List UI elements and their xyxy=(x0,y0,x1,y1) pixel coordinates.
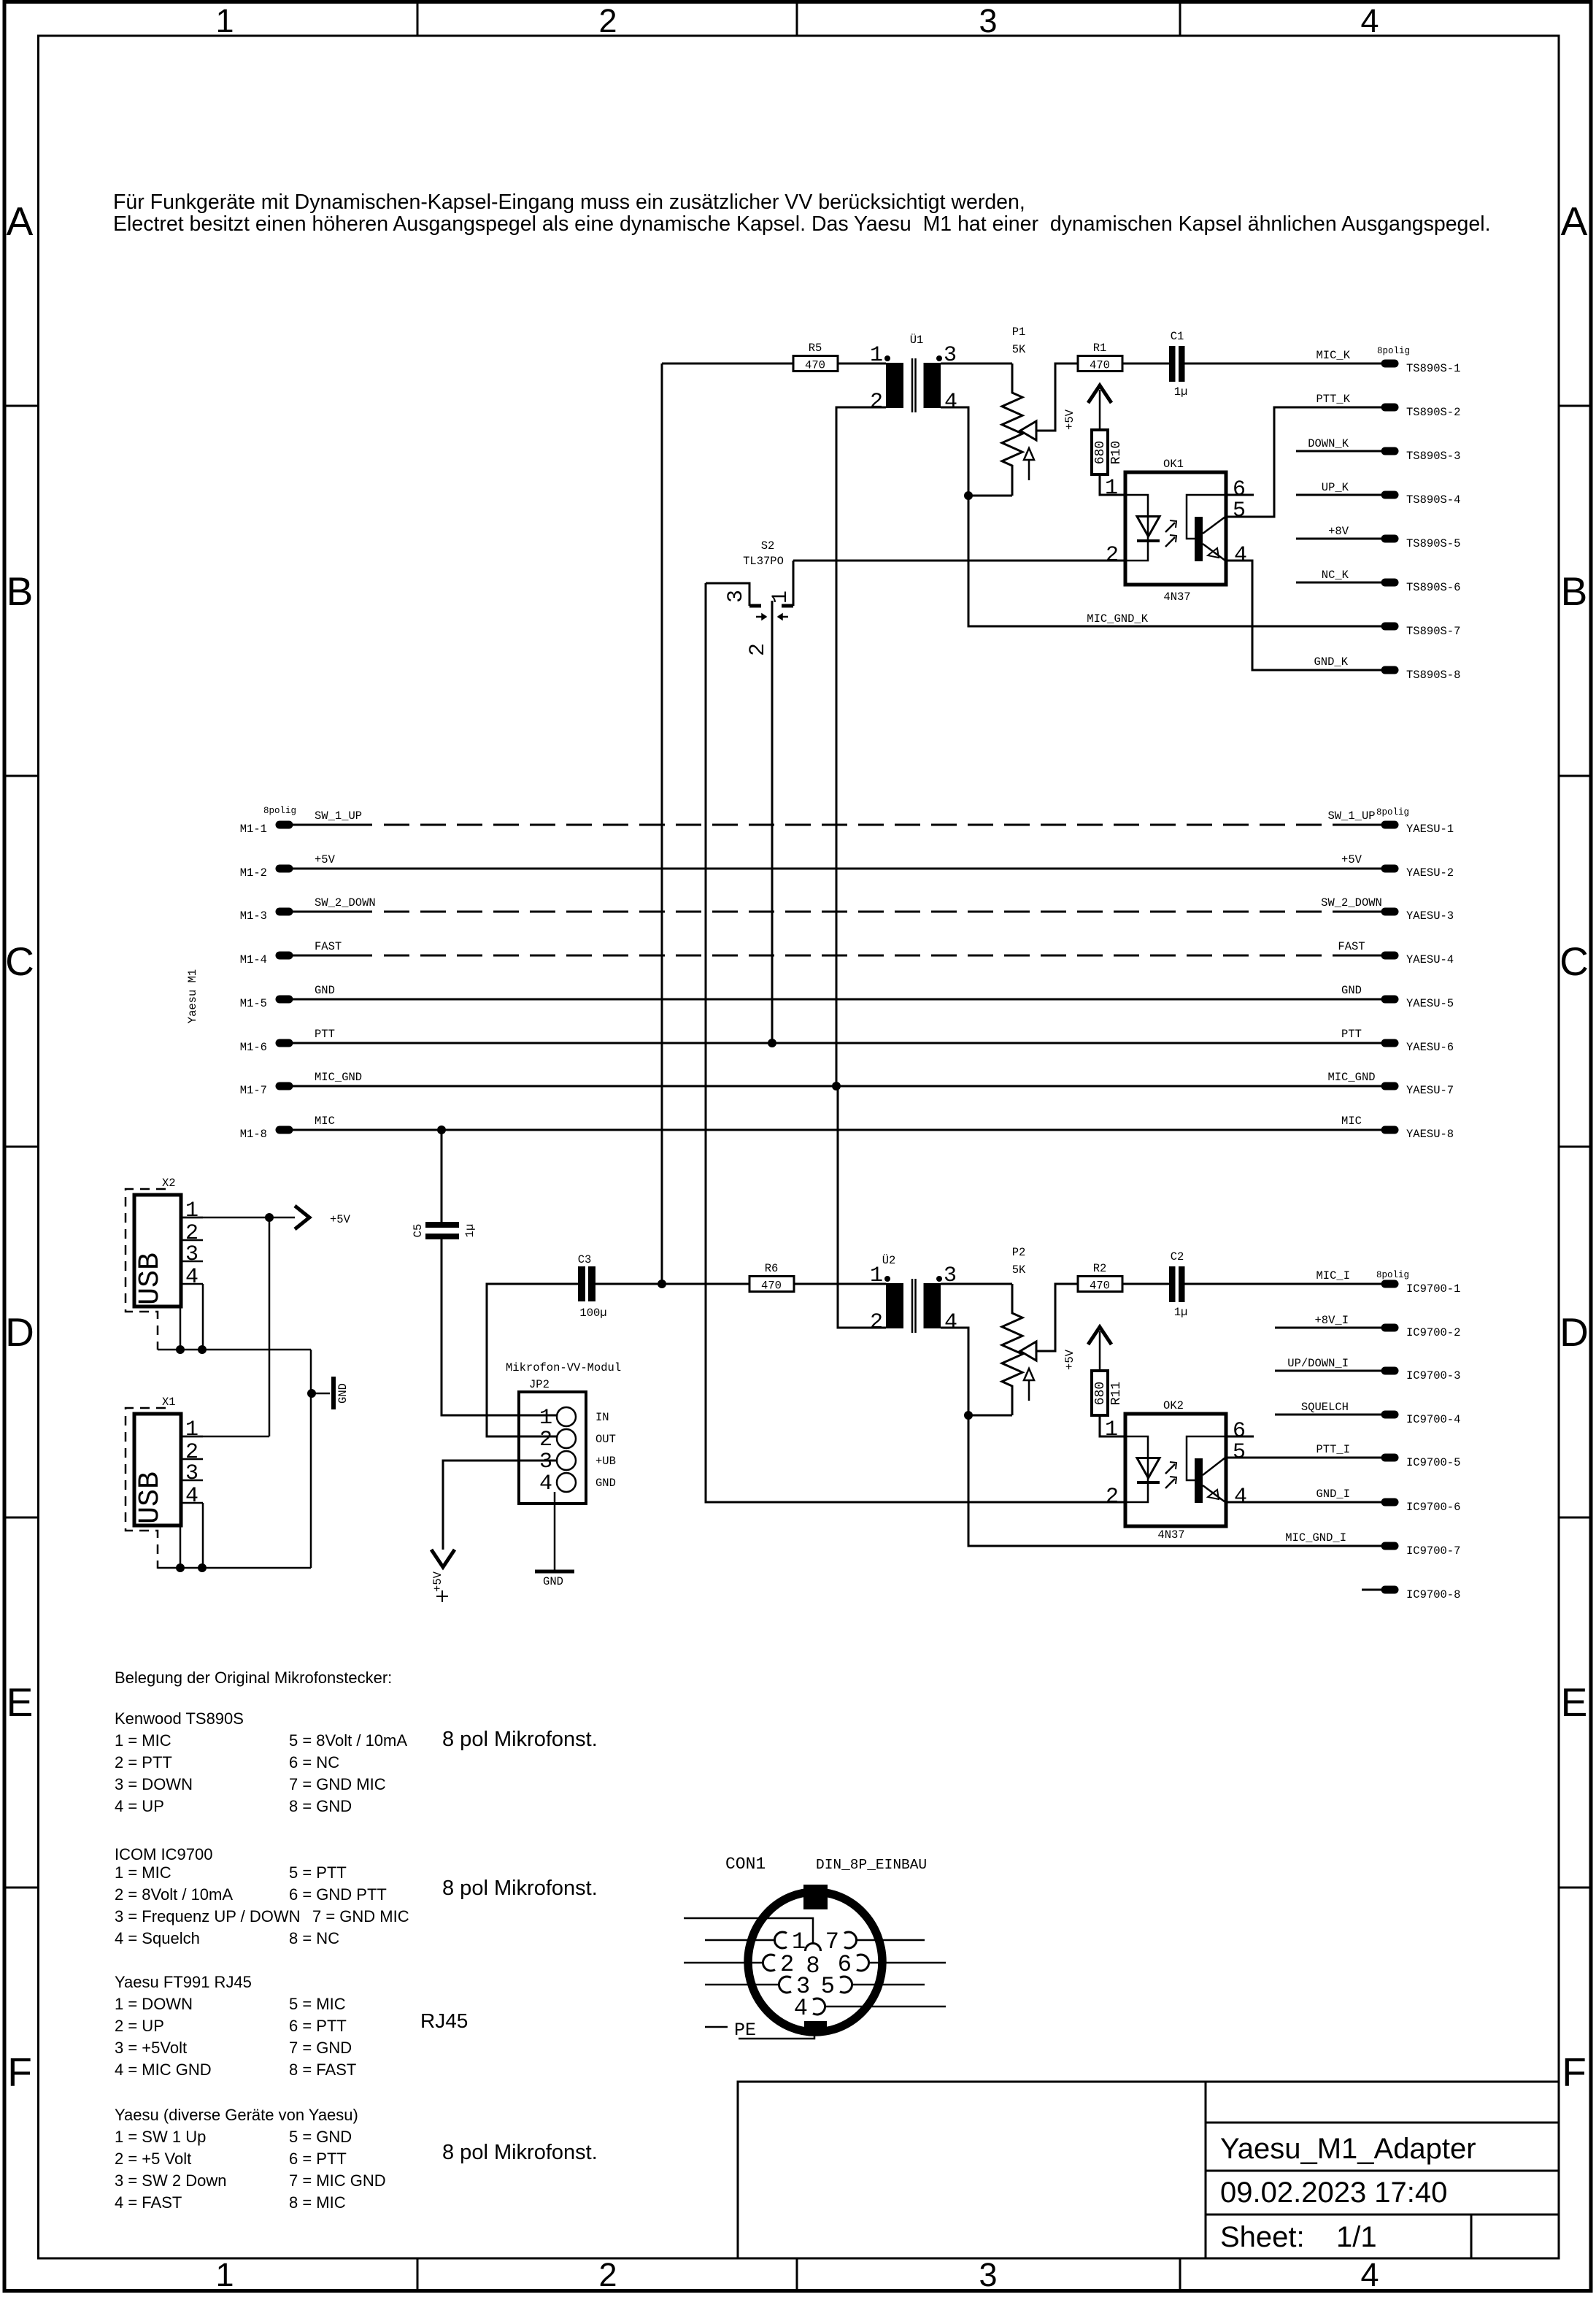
svg-text:4: 4 xyxy=(539,1471,552,1496)
svg-text:+UB: +UB xyxy=(595,1455,616,1468)
svg-text:D: D xyxy=(1560,1309,1589,1355)
optocoupler OK1 box xyxy=(1125,472,1226,585)
svg-text:2 = 8Volt / 10mA: 2 = 8Volt / 10mA xyxy=(115,1885,233,1904)
svg-text:MIC_GND: MIC_GND xyxy=(315,1071,362,1084)
junction dot U1 pin2 to MIC_GND bus xyxy=(832,1082,841,1090)
svg-text:C2: C2 xyxy=(1171,1250,1184,1263)
X1 pin 4 stub xyxy=(181,1502,203,1504)
svg-text:470: 470 xyxy=(761,1280,782,1293)
wire bus MIC xyxy=(292,1129,1381,1131)
svg-text:CON1: CON1 xyxy=(725,1855,766,1874)
svg-text:GND: GND xyxy=(315,984,335,997)
wire stub +8V_I xyxy=(1275,1327,1381,1329)
svg-text:PTT_I: PTT_I xyxy=(1316,1443,1350,1456)
svg-text:4: 4 xyxy=(1360,2,1379,39)
svg-text:GND: GND xyxy=(1341,984,1362,997)
border left row tick C-D xyxy=(5,1146,38,1148)
resistor R6 xyxy=(749,1277,794,1292)
svg-text:SW_1_UP: SW_1_UP xyxy=(1327,809,1375,823)
connector pin YAESU-3 xyxy=(1385,908,1395,916)
CON1 PE wire stub xyxy=(705,2026,728,2028)
ground symbol GND (JP2) xyxy=(535,1570,574,1574)
svg-text:TS890S-8: TS890S-8 xyxy=(1406,669,1460,682)
connector pin IC9700-3 xyxy=(1385,1367,1395,1375)
CON1 pin 1 wire xyxy=(705,1939,774,1942)
svg-text:7 = GND MIC: 7 = GND MIC xyxy=(312,1907,409,1925)
switch S2 arrows xyxy=(756,616,766,618)
svg-text:USB: USB xyxy=(134,1253,167,1305)
wire C3 right to node xyxy=(595,1283,662,1285)
wire R10 to OK1 pin1 xyxy=(1100,474,1125,495)
svg-text:TL37PO: TL37PO xyxy=(743,555,784,568)
svg-text:3: 3 xyxy=(539,1450,552,1474)
connector pin TS890S-6 xyxy=(1385,579,1395,587)
svg-text:F: F xyxy=(7,2050,32,2095)
wire X1 pin1 to X2 pin1 xyxy=(181,1436,269,1438)
switch S2 pin1 lead xyxy=(793,561,795,606)
svg-text:5K: 5K xyxy=(1012,343,1026,356)
svg-text:1µ: 1µ xyxy=(1174,385,1188,399)
svg-text:TS890S-1: TS890S-1 xyxy=(1406,362,1460,375)
wire R11 to OK2 pin1 xyxy=(1100,1415,1125,1436)
svg-text:8polig: 8polig xyxy=(1377,346,1410,356)
svg-text:4: 4 xyxy=(185,1484,198,1509)
svg-text:470: 470 xyxy=(1090,359,1110,372)
OK2 LED light arrows xyxy=(1165,1464,1175,1474)
connector pin TS890S-4 xyxy=(1385,491,1395,499)
wire stub SQUELCH xyxy=(1275,1414,1381,1416)
connector pin M1-1 xyxy=(280,821,289,829)
svg-text:1: 1 xyxy=(870,1263,883,1288)
wire rail down to X1 rail xyxy=(310,1350,312,1568)
svg-text:4: 4 xyxy=(185,1265,198,1290)
connector pin YAESU-5 xyxy=(1385,996,1395,1004)
CON1 pin 7 socket xyxy=(844,1932,857,1948)
svg-text:2: 2 xyxy=(598,2,617,39)
resistor R5 xyxy=(793,356,838,372)
svg-text:5K: 5K xyxy=(1012,1263,1026,1277)
wire X2 pin4 down xyxy=(202,1284,204,1350)
X2 pin 2 stub xyxy=(181,1239,203,1242)
svg-text:YAESU-4: YAESU-4 xyxy=(1406,953,1454,966)
connector pin IC9700-8 xyxy=(1385,1586,1395,1594)
wire node to R6 xyxy=(662,1283,749,1285)
CON1 pin 3 socket xyxy=(779,1977,791,1993)
wire C1 to TS890S-1 MIC_K xyxy=(1185,363,1382,365)
svg-text:TS890S-6: TS890S-6 xyxy=(1406,581,1460,594)
wire U1 pin2 left xyxy=(836,407,886,1086)
wire MIC bus to C5 xyxy=(441,1130,443,1222)
wire P2 wiper to R2 xyxy=(1036,1284,1078,1351)
wire stub DOWN_K xyxy=(1296,450,1381,453)
svg-text:C5: C5 xyxy=(412,1224,425,1238)
svg-text:4: 4 xyxy=(1360,2256,1379,2293)
svg-text:1: 1 xyxy=(185,1417,198,1442)
svg-text:6 = PTT: 6 = PTT xyxy=(289,2150,347,2168)
svg-text:SW_2_DOWN: SW_2_DOWN xyxy=(1321,896,1382,909)
svg-text:M1-2: M1-2 xyxy=(240,866,267,880)
border left row tick E-F xyxy=(5,1887,38,1889)
X2 pin 1 stub xyxy=(181,1217,203,1219)
svg-text:R6: R6 xyxy=(765,1262,779,1275)
svg-text:8polig: 8polig xyxy=(1376,1270,1409,1280)
X1 pin 3 stub xyxy=(181,1480,203,1482)
wire GND tap xyxy=(312,1393,330,1395)
potentiometer P2 xyxy=(1002,1284,1022,1415)
svg-text:8 = MIC: 8 = MIC xyxy=(289,2193,346,2212)
transformer U2 pin 1 dot xyxy=(884,1276,890,1282)
svg-text:PTT: PTT xyxy=(315,1028,335,1041)
svg-text:7 = MIC GND: 7 = MIC GND xyxy=(289,2171,386,2190)
power +5V arrow (R10 top) xyxy=(1088,385,1111,403)
border left row tick A-B xyxy=(5,405,38,407)
svg-text:YAESU-8: YAESU-8 xyxy=(1406,1128,1454,1141)
sheet center mark xyxy=(436,1596,448,1597)
svg-text:SW_2_DOWN: SW_2_DOWN xyxy=(315,896,376,909)
svg-text:Belegung der Original Mikrofon: Belegung der Original Mikrofonstecker: xyxy=(115,1669,392,1687)
svg-text:YAESU-1: YAESU-1 xyxy=(1406,823,1454,836)
switch S2 actuator and pin2 lead xyxy=(771,601,774,1043)
svg-text:6 = NC: 6 = NC xyxy=(289,1753,339,1771)
svg-text:4: 4 xyxy=(794,1995,808,2022)
svg-text:1µ: 1µ xyxy=(1174,1306,1188,1319)
title block outline xyxy=(738,2082,1559,2258)
svg-text:470: 470 xyxy=(805,359,825,372)
module JP2 box xyxy=(519,1392,586,1504)
title block line 1 xyxy=(1206,2122,1559,2124)
svg-text:TS890S-5: TS890S-5 xyxy=(1406,537,1460,550)
svg-text:YAESU-5: YAESU-5 xyxy=(1406,997,1454,1010)
wire R2 to C2 xyxy=(1122,1283,1169,1285)
svg-text:UP_K: UP_K xyxy=(1322,481,1349,494)
connector pin TS890S-3 xyxy=(1385,447,1395,455)
svg-text:M1-3: M1-3 xyxy=(240,909,267,923)
svg-text:1: 1 xyxy=(185,1198,198,1223)
P2 adjust arrow xyxy=(1024,1369,1034,1380)
svg-text:FAST: FAST xyxy=(315,940,342,953)
OK1 internal LED xyxy=(1125,495,1148,541)
svg-text:Yaesu FT991 RJ45: Yaesu FT991 RJ45 xyxy=(115,1973,252,1991)
wire P1 wiper to R1 xyxy=(1036,363,1078,431)
svg-text:GND_I: GND_I xyxy=(1316,1488,1350,1501)
svg-text:5: 5 xyxy=(821,1973,835,2000)
wire U1 pin4 down xyxy=(941,407,968,496)
transformer U1 xyxy=(886,363,903,408)
connector pin TS890S-1 xyxy=(1385,360,1395,368)
svg-text:Yaesu M1: Yaesu M1 xyxy=(186,969,199,1023)
svg-text:IC9700-6: IC9700-6 xyxy=(1406,1501,1460,1514)
svg-text:D: D xyxy=(5,1309,34,1355)
border right row tick B-C xyxy=(1559,775,1591,777)
wire node vertical x=907 (R5 line down to C3 node) xyxy=(661,363,663,1284)
svg-text:USB: USB xyxy=(134,1471,167,1524)
X1 pin 1 stub xyxy=(181,1436,203,1438)
wire U2 pin3 to P2 xyxy=(941,1283,1012,1285)
svg-text:B: B xyxy=(1561,569,1588,614)
svg-text:Für Funkgeräte mit Dynamischen: Für Funkgeräte mit Dynamischen-Kapsel-Ei… xyxy=(113,191,1025,214)
svg-text:5 = 8Volt / 10mA: 5 = 8Volt / 10mA xyxy=(289,1731,407,1750)
svg-text:+5V: +5V xyxy=(1341,853,1362,866)
CON1 pin 7 wire xyxy=(857,1939,925,1942)
svg-text:1/1: 1/1 xyxy=(1336,2221,1377,2253)
svg-text:4: 4 xyxy=(1234,543,1247,568)
svg-text:IC9700-4: IC9700-4 xyxy=(1406,1413,1460,1426)
wire X1 shell down xyxy=(180,1525,182,1568)
svg-text:4N37: 4N37 xyxy=(1163,590,1190,604)
CON1 pin 6 wire xyxy=(869,1962,946,1964)
svg-text:MIC_GND: MIC_GND xyxy=(1327,1071,1375,1084)
wire U2 pin2 up to MIC_GND bus xyxy=(838,1086,886,1328)
connector CON1 keyway top xyxy=(803,1885,828,1909)
wire node to IC9700-7 MIC_GND_I xyxy=(968,1415,1381,1546)
svg-text:7 = GND: 7 = GND xyxy=(289,2039,352,2057)
svg-text:2: 2 xyxy=(746,643,771,656)
connector pin TS890S-8 xyxy=(1385,666,1395,674)
border right row tick E-F xyxy=(1559,1887,1591,1889)
svg-text:4: 4 xyxy=(944,1310,957,1335)
border top column tick 1-2 xyxy=(417,1,419,36)
wire OK2 pin4 to IC9700-6 GND_I xyxy=(1226,1501,1381,1504)
wire P2 bottom xyxy=(968,1415,1012,1417)
connector pin IC9700-2 xyxy=(1385,1324,1395,1332)
resistor R10 xyxy=(1092,430,1108,474)
svg-text:Sheet:: Sheet: xyxy=(1220,2221,1305,2253)
svg-text:GND_K: GND_K xyxy=(1314,655,1348,669)
svg-text:OK2: OK2 xyxy=(1163,1399,1184,1412)
svg-text:5 = MIC: 5 = MIC xyxy=(289,1995,346,2013)
border right row tick D-E xyxy=(1559,1517,1591,1519)
connector pin M1-7 xyxy=(280,1082,289,1090)
wire stub UP/DOWN_I xyxy=(1275,1370,1381,1372)
svg-text:M1-7: M1-7 xyxy=(240,1084,267,1097)
svg-text:8 pol Mikrofonst.: 8 pol Mikrofonst. xyxy=(442,1728,598,1751)
svg-text:M1-1: M1-1 xyxy=(240,823,267,836)
svg-text:MIC_GND_K: MIC_GND_K xyxy=(1087,612,1148,626)
CON1 pin 5 socket xyxy=(840,1977,852,1993)
wire bus FAST xyxy=(292,955,372,957)
svg-text:IC9700-1: IC9700-1 xyxy=(1406,1282,1460,1296)
svg-text:TS890S-4: TS890S-4 xyxy=(1406,493,1460,507)
svg-text:C1: C1 xyxy=(1171,330,1184,343)
connector pin YAESU-8 xyxy=(1385,1126,1395,1134)
svg-text:TS890S-3: TS890S-3 xyxy=(1406,450,1460,463)
svg-text:YAESU-7: YAESU-7 xyxy=(1406,1084,1454,1097)
svg-text:1 = MIC: 1 = MIC xyxy=(115,1731,171,1750)
connector CON1 ring xyxy=(748,1892,882,2032)
border bottom column tick 3-4 xyxy=(1179,2258,1181,2291)
svg-text:4: 4 xyxy=(944,390,957,415)
CON1 pin 5 wire xyxy=(852,1984,925,1986)
svg-text:R10: R10 xyxy=(1109,441,1124,464)
svg-text:1: 1 xyxy=(1105,476,1118,501)
resistor R2 xyxy=(1078,1277,1122,1292)
svg-text:E: E xyxy=(1561,1680,1588,1725)
border right row tick A-B xyxy=(1559,405,1591,407)
junction dot X1 rail pin4 xyxy=(198,1563,207,1572)
svg-text:1: 1 xyxy=(768,590,793,604)
ground symbol GND (USB) xyxy=(331,1377,336,1409)
svg-text:5 = GND: 5 = GND xyxy=(289,2128,352,2146)
svg-text:M1-4: M1-4 xyxy=(240,953,267,966)
svg-text:3: 3 xyxy=(979,2,997,39)
JP2 pin 1 circle xyxy=(557,1407,576,1426)
border top column tick 2-3 xyxy=(796,1,798,36)
svg-text:1: 1 xyxy=(1105,1417,1118,1442)
wire S2 pin3 down to OK2 pin2 xyxy=(706,583,1125,1502)
power +5V arrow (R11 top) xyxy=(1088,1327,1111,1344)
svg-text:3 = +5Volt: 3 = +5Volt xyxy=(115,2039,187,2057)
junction dot MIC bus to C5 xyxy=(437,1126,446,1134)
svg-text:1: 1 xyxy=(539,1406,552,1431)
wire OK1 pin4 to TS890S-8 GND_K xyxy=(1226,561,1381,670)
connector pin YAESU-4 xyxy=(1385,952,1395,960)
svg-text:3 = Frequenz UP / DOWN: 3 = Frequenz UP / DOWN xyxy=(115,1907,301,1925)
svg-text:X2: X2 xyxy=(162,1177,176,1190)
potentiometer P1 xyxy=(1002,363,1022,496)
svg-text:YAESU-6: YAESU-6 xyxy=(1406,1041,1454,1054)
wire OK1 pin5 to TS890S-2 PTT_K xyxy=(1226,407,1381,517)
title block small divider xyxy=(1470,2215,1473,2258)
OK1 phototransistor xyxy=(1195,517,1203,561)
P1 wiper arrow xyxy=(1020,421,1036,440)
svg-text:RJ45: RJ45 xyxy=(420,2009,468,2032)
connector X1 dashed outline xyxy=(126,1408,166,1569)
wire C3 left to JP2 pin2 OUT xyxy=(487,1284,578,1436)
CON1 pin 4 socket xyxy=(813,1998,825,2015)
wire JP2 pin4 to GND xyxy=(554,1492,556,1571)
optocoupler OK2 box xyxy=(1125,1414,1226,1526)
svg-text:SW_1_UP: SW_1_UP xyxy=(315,809,362,823)
connector pin IC9700-1 xyxy=(1385,1280,1395,1288)
svg-text:1 = MIC: 1 = MIC xyxy=(115,1863,171,1882)
wire P1 bottom to node xyxy=(968,495,1012,497)
svg-text:R1: R1 xyxy=(1093,342,1107,355)
svg-text:2: 2 xyxy=(870,390,883,415)
wire X2 pin1 junction down to X1 pin1 xyxy=(269,1217,271,1436)
svg-text:Ü1: Ü1 xyxy=(910,334,924,347)
X2 pin 3 stub xyxy=(181,1261,203,1263)
svg-text:E: E xyxy=(7,1680,34,1725)
svg-text:4 = Squelch: 4 = Squelch xyxy=(115,1929,200,1947)
svg-text:8 = FAST: 8 = FAST xyxy=(289,2061,356,2079)
OK2 phototransistor xyxy=(1195,1458,1203,1503)
svg-text:Electret besitzt einen höheren: Electret besitzt einen höheren Ausgangsp… xyxy=(113,212,1491,236)
wire bus GND xyxy=(292,999,1381,1001)
wire U2 pin4 down xyxy=(941,1328,968,1415)
connector pin M1-6 xyxy=(280,1039,289,1047)
power +5V right arrow xyxy=(295,1206,309,1229)
svg-text:R2: R2 xyxy=(1093,1262,1107,1275)
svg-text:NC_K: NC_K xyxy=(1322,569,1349,582)
wire R6 to U2 pin1 xyxy=(794,1283,886,1285)
wire U1 pin3 to P1 xyxy=(941,363,1012,365)
svg-text:IC9700-2: IC9700-2 xyxy=(1406,1326,1460,1339)
wire X2 pin1 to +5V arrow xyxy=(181,1217,295,1219)
border bottom column tick 1-2 xyxy=(417,2258,419,2291)
svg-text:+5V: +5V xyxy=(315,853,336,866)
JP2 pin 3 circle xyxy=(557,1451,576,1470)
junction dot X1 rail shell xyxy=(176,1563,185,1572)
svg-text:1 = SW 1 Up: 1 = SW 1 Up xyxy=(115,2128,206,2146)
svg-text:3 = SW 2 Down: 3 = SW 2 Down xyxy=(115,2171,226,2190)
svg-text:1 = DOWN: 1 = DOWN xyxy=(115,1995,193,2013)
P2 wiper arrow xyxy=(1020,1342,1036,1361)
wire R5 left to node vertical xyxy=(662,363,793,365)
svg-text:C: C xyxy=(1560,939,1589,984)
svg-text:4 = FAST: 4 = FAST xyxy=(115,2193,182,2212)
connector pin YAESU-1 xyxy=(1385,821,1395,829)
svg-text:6: 6 xyxy=(838,1951,852,1978)
svg-text:6 = GND PTT: 6 = GND PTT xyxy=(289,1885,387,1904)
svg-text:5 = PTT: 5 = PTT xyxy=(289,1863,347,1882)
OK2 internal LED xyxy=(1125,1436,1148,1482)
connector pin YAESU-6 xyxy=(1385,1039,1395,1047)
junction dot P1 bottom node xyxy=(964,491,973,500)
wire R1 to C1 xyxy=(1122,363,1169,365)
P1 adjust arrow xyxy=(1024,448,1034,460)
svg-text:PTT: PTT xyxy=(1341,1028,1362,1041)
svg-text:JP2: JP2 xyxy=(529,1378,550,1391)
svg-text:2 = +5 Volt: 2 = +5 Volt xyxy=(115,2150,191,2168)
title block divider vertical xyxy=(1205,2082,1207,2258)
border bottom column tick 2-3 xyxy=(796,2258,798,2291)
border left row tick D-E xyxy=(5,1517,38,1519)
resistor R11 xyxy=(1092,1371,1108,1415)
svg-text:1: 1 xyxy=(215,2,234,39)
svg-text:S2: S2 xyxy=(761,539,775,553)
svg-text:1: 1 xyxy=(215,2256,234,2293)
svg-text:P1: P1 xyxy=(1012,326,1026,339)
svg-text:2: 2 xyxy=(1106,543,1119,568)
svg-text:PTT_K: PTT_K xyxy=(1316,393,1350,406)
border right row tick C-D xyxy=(1559,1146,1591,1148)
svg-text:2: 2 xyxy=(539,1428,552,1453)
wire bus MIC_GND xyxy=(292,1085,1381,1088)
junction dot C3/R5-node/R6 xyxy=(658,1280,666,1288)
svg-text:X1: X1 xyxy=(162,1396,176,1409)
svg-text:PE: PE xyxy=(734,2020,756,2041)
svg-text:C: C xyxy=(5,939,34,984)
power +5V down arrow xyxy=(431,1550,455,1567)
junction dot X2 rail pin4 xyxy=(198,1345,207,1354)
connector pin IC9700-5 xyxy=(1385,1454,1395,1462)
connector pin TS890S-5 xyxy=(1385,535,1395,543)
svg-text:UP/DOWN_I: UP/DOWN_I xyxy=(1287,1357,1349,1370)
wire bus SW_2_DOWN xyxy=(292,911,372,913)
svg-text:GND: GND xyxy=(543,1575,563,1588)
svg-text:ICOM IC9700: ICOM IC9700 xyxy=(115,1845,213,1863)
CON1 pin 1 socket xyxy=(774,1932,787,1948)
title block line 2 xyxy=(1206,2170,1559,2172)
svg-text:P2: P2 xyxy=(1012,1246,1026,1259)
svg-text:8 = NC: 8 = NC xyxy=(289,1929,339,1947)
wire OK2 pin5 to IC9700-5 PTT_I xyxy=(1226,1457,1381,1459)
svg-text:470: 470 xyxy=(1090,1280,1110,1293)
junction dot S2 pin2 to PTT bus xyxy=(768,1039,776,1047)
transformer U1 pin 1 dot xyxy=(884,355,890,361)
svg-text:Yaesu (diverse Geräte von Yaes: Yaesu (diverse Geräte von Yaesu) xyxy=(115,2106,358,2124)
svg-text:1: 1 xyxy=(870,343,883,368)
capacitor C3 xyxy=(578,1266,585,1301)
svg-text:5: 5 xyxy=(1233,499,1246,523)
wire C5 to JP2 pin1 IN xyxy=(442,1239,557,1415)
connector pin M1-2 xyxy=(280,865,289,873)
CON1 pin 6 socket xyxy=(857,1955,869,1971)
wire node to TS890S-7 MIC_GND_K xyxy=(968,496,1381,626)
svg-text:F: F xyxy=(1562,2050,1587,2095)
wire bus SW_1_UP xyxy=(292,824,372,826)
svg-text:4: 4 xyxy=(1234,1485,1247,1509)
